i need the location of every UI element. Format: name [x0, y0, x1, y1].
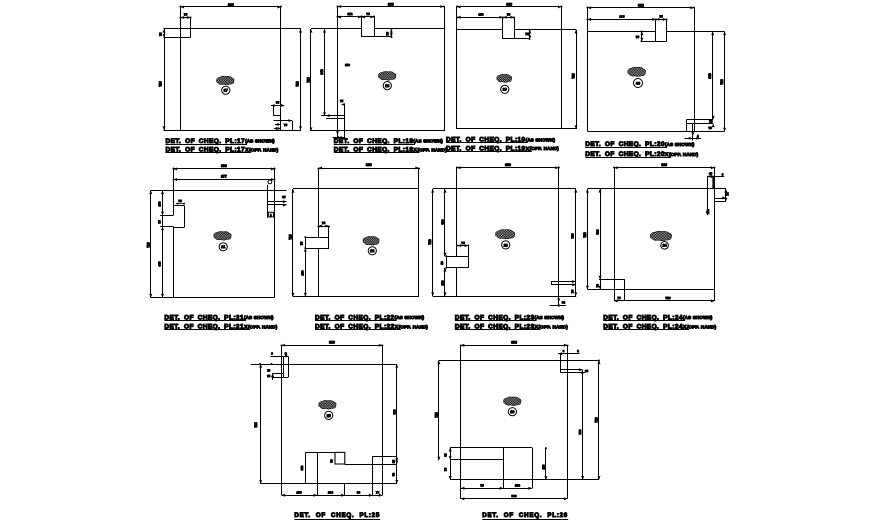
- svg-text:75: 75: [300, 242, 304, 246]
- svg-text:25: 25: [585, 369, 589, 373]
- svg-text:75: 75: [726, 192, 730, 196]
- svg-text:75: 75: [184, 13, 188, 17]
- svg-text:350: 350: [300, 465, 304, 470]
- svg-text:150: 150: [441, 280, 445, 285]
- svg-text:75: 75: [709, 120, 713, 124]
- svg-text:520: 520: [596, 229, 600, 234]
- svg-text:718: 718: [254, 422, 258, 428]
- svg-text:300: 300: [329, 341, 335, 345]
- svg-text:718: 718: [428, 239, 432, 245]
- svg-text:718: 718: [146, 242, 150, 248]
- svg-text:DET. OF CHEQ. PL:25: DET. OF CHEQ. PL:25: [294, 512, 380, 519]
- svg-text:719: 719: [665, 296, 670, 300]
- svg-text:26: 26: [510, 410, 514, 414]
- svg-text:718: 718: [296, 81, 300, 87]
- svg-text:150: 150: [345, 63, 350, 67]
- svg-text:23: 23: [504, 243, 508, 247]
- svg-text:75: 75: [636, 35, 640, 39]
- svg-text:50: 50: [440, 261, 444, 265]
- svg-text:75: 75: [376, 491, 380, 495]
- svg-text:718: 718: [306, 77, 310, 83]
- svg-text:25: 25: [327, 414, 331, 418]
- svg-text:718: 718: [289, 234, 293, 240]
- svg-text:308: 308: [511, 341, 517, 345]
- svg-text:75: 75: [157, 220, 161, 224]
- svg-text:718: 718: [583, 232, 587, 238]
- svg-text:22: 22: [370, 249, 374, 253]
- svg-text:175: 175: [296, 491, 301, 495]
- svg-text:750: 750: [392, 409, 396, 414]
- svg-text:171: 171: [347, 12, 352, 16]
- svg-text:150: 150: [157, 201, 161, 206]
- svg-text:718: 718: [159, 81, 163, 87]
- svg-text:50: 50: [392, 473, 396, 477]
- svg-text:640: 640: [320, 69, 324, 75]
- svg-text:25: 25: [392, 460, 396, 464]
- svg-text:718: 718: [570, 233, 574, 238]
- svg-text:45: 45: [709, 172, 713, 176]
- svg-text:520: 520: [578, 429, 582, 434]
- svg-text:300: 300: [221, 164, 227, 168]
- svg-text:18: 18: [385, 84, 389, 88]
- svg-text:640: 640: [708, 73, 712, 79]
- svg-text:DET. OF CHEQ. PL:26: DET. OF CHEQ. PL:26: [482, 512, 568, 519]
- svg-text:50: 50: [330, 459, 334, 463]
- svg-text:718: 718: [571, 73, 575, 79]
- svg-text:50: 50: [357, 491, 361, 495]
- svg-text:24: 24: [663, 244, 667, 248]
- svg-text:75: 75: [480, 483, 484, 487]
- svg-text:75: 75: [525, 32, 529, 36]
- svg-text:308: 308: [638, 4, 644, 8]
- svg-text:75: 75: [178, 199, 182, 203]
- svg-text:150: 150: [515, 483, 520, 487]
- svg-text:75: 75: [322, 221, 326, 225]
- svg-text:300: 300: [366, 163, 372, 167]
- svg-text:300: 300: [505, 163, 511, 167]
- svg-text:300: 300: [661, 163, 667, 167]
- svg-text:19: 19: [503, 88, 507, 92]
- svg-text:300: 300: [388, 2, 394, 6]
- svg-text:330: 330: [441, 219, 445, 224]
- svg-text:440: 440: [157, 261, 161, 266]
- svg-text:50: 50: [444, 453, 448, 457]
- svg-text:75: 75: [340, 99, 344, 103]
- svg-text:75: 75: [276, 101, 280, 105]
- svg-text:75: 75: [709, 126, 713, 130]
- svg-text:75: 75: [617, 296, 621, 300]
- svg-text:300: 300: [228, 3, 234, 7]
- svg-text:300: 300: [506, 3, 512, 7]
- svg-text:75: 75: [596, 284, 600, 288]
- svg-text:75: 75: [570, 290, 574, 294]
- svg-text:150: 150: [478, 12, 483, 16]
- svg-text:75: 75: [158, 32, 162, 36]
- svg-text:75: 75: [507, 12, 511, 16]
- svg-text:50: 50: [562, 300, 566, 304]
- svg-text:17: 17: [224, 89, 228, 93]
- svg-text:21: 21: [221, 245, 225, 249]
- svg-text:75: 75: [284, 123, 288, 127]
- svg-text:768: 768: [595, 417, 599, 423]
- svg-text:20: 20: [636, 81, 640, 85]
- svg-text:718: 718: [720, 79, 724, 85]
- svg-text:250: 250: [541, 464, 545, 469]
- svg-text:150: 150: [300, 270, 304, 275]
- svg-text:75: 75: [366, 12, 370, 16]
- svg-text:100: 100: [328, 491, 333, 495]
- svg-text:277: 277: [221, 175, 227, 179]
- svg-text:45: 45: [282, 195, 286, 199]
- svg-text:300: 300: [511, 494, 516, 498]
- svg-text:233: 233: [619, 15, 624, 19]
- svg-text:75: 75: [444, 468, 448, 472]
- svg-text:75: 75: [659, 15, 663, 19]
- svg-text:C: C: [285, 352, 287, 356]
- svg-text:75: 75: [461, 241, 465, 245]
- svg-text:718: 718: [434, 412, 438, 418]
- svg-text:75: 75: [386, 32, 390, 36]
